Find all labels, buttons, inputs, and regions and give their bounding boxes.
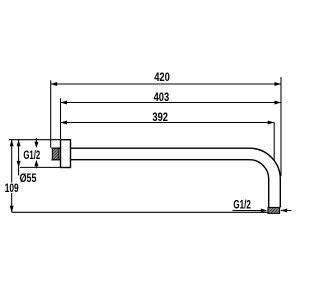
svg-text:403: 403 <box>154 91 170 104</box>
svg-text:420: 420 <box>154 71 170 84</box>
svg-text:G1/2: G1/2 <box>233 199 251 212</box>
svg-text:109: 109 <box>5 182 19 195</box>
svg-text:Ø55: Ø55 <box>20 172 37 185</box>
svg-text:392: 392 <box>152 111 168 124</box>
svg-text:G1/2: G1/2 <box>23 149 40 162</box>
